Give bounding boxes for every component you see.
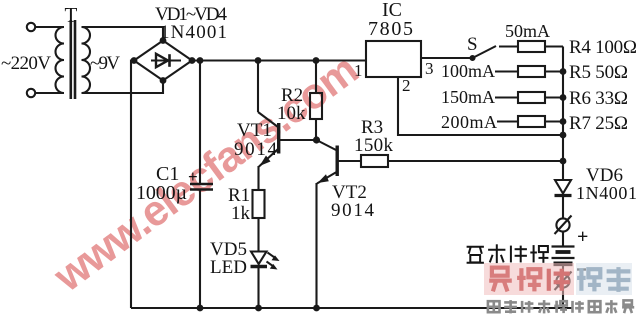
transistor VT1 <box>258 112 279 167</box>
logo char pei <box>577 268 601 291</box>
wire VT2 base to R3 <box>338 160 361 162</box>
logo subtitle char 6 <box>573 301 584 313</box>
diode VD6 <box>555 180 572 196</box>
wire VT1 collector column <box>257 61 259 113</box>
junction bottom rail C1 <box>197 305 204 312</box>
svg-text:+: + <box>577 226 588 248</box>
junction top rail VT1 <box>255 57 262 64</box>
svg-text:200mA: 200mA <box>441 112 497 132</box>
transformer T primary winding <box>56 27 65 93</box>
wire left ground rail <box>131 61 134 309</box>
logo char tuo <box>549 269 570 291</box>
wire C1 column lower <box>199 190 201 309</box>
junction bridge top vertex <box>160 37 167 44</box>
svg-text:+: + <box>188 167 198 186</box>
junction rail R3 line <box>560 158 567 165</box>
junction rail R6 <box>560 94 567 101</box>
svg-text:150mA: 150mA <box>441 87 495 107</box>
svg-text:R5 50Ω: R5 50Ω <box>569 62 628 83</box>
transformer T primary terminal lower <box>27 89 35 97</box>
logo char yi <box>489 268 512 292</box>
wire pin3 to switch <box>421 57 472 59</box>
svg-text:1N4001: 1N4001 <box>576 183 637 203</box>
svg-text:1N4001: 1N4001 <box>160 22 227 43</box>
logo char xun <box>607 267 631 292</box>
resistor R4 <box>499 41 563 52</box>
svg-text:VT1: VT1 <box>237 120 272 141</box>
svg-text:150k: 150k <box>354 135 394 156</box>
junction bottom rail VT2 <box>313 305 320 312</box>
svg-text:www.elecfans.com: www.elecfans.com <box>45 46 367 302</box>
svg-text:7805: 7805 <box>368 18 413 40</box>
switch S <box>471 46 497 60</box>
resistor R7 <box>497 116 563 127</box>
wire C1 column upper <box>199 61 201 184</box>
logo subtitle char 4 <box>538 300 550 313</box>
svg-text:1k: 1k <box>231 203 251 224</box>
wire VD6 to terminal <box>562 196 564 219</box>
wire primary lower lead <box>35 92 64 94</box>
junction rail pin2 <box>560 132 567 139</box>
wire primary upper lead <box>35 26 64 28</box>
svg-text:S: S <box>467 34 478 55</box>
logo subtitle char 5 <box>554 301 567 313</box>
svg-text:LED: LED <box>210 257 247 278</box>
terminal plug upper <box>555 216 572 235</box>
junction bridge right vertex <box>189 57 196 64</box>
logo subtitle char 9 <box>622 300 634 313</box>
resistor R5 <box>495 66 563 77</box>
wire VT1 emitter to R1 <box>257 166 259 190</box>
op-amp IC 7805 box <box>366 41 421 77</box>
svg-text:1: 1 <box>354 61 363 80</box>
logo backdrop <box>484 263 632 295</box>
transistor VT2 <box>317 140 338 184</box>
terminal plug lower <box>555 272 572 291</box>
svg-text:R7 25Ω: R7 25Ω <box>569 113 628 134</box>
transformer T core <box>71 20 75 99</box>
junction bottom rail VD5 <box>255 305 262 312</box>
logo subtitle char 8 <box>605 300 617 313</box>
resistor R6 <box>495 92 563 103</box>
label chong (charge) <box>488 244 505 263</box>
battery cells <box>552 247 575 264</box>
svg-text:~220V: ~220V <box>1 53 51 74</box>
bridge rectifier VD1~VD4 <box>134 41 192 81</box>
svg-text:1000µ: 1000µ <box>136 182 187 204</box>
svg-text:50mA: 50mA <box>505 21 550 41</box>
wire terminal to ground rail <box>562 288 564 308</box>
logo char di <box>517 268 541 291</box>
junction rail R5 <box>560 68 567 75</box>
svg-text:R4 100Ω: R4 100Ω <box>569 37 637 58</box>
wire R3 to VD6 column <box>388 160 563 162</box>
label bei (charged) <box>467 247 484 263</box>
svg-text:9014: 9014 <box>331 200 375 221</box>
watermark www.elecfans.com <box>45 46 367 302</box>
logo subtitle char 1 <box>488 301 500 312</box>
wire positive top rail <box>192 59 366 61</box>
wire secondary bottom to bridge <box>82 80 164 93</box>
svg-text:100mA: 100mA <box>441 61 495 81</box>
wire terminal to battery <box>562 232 564 246</box>
svg-text:2: 2 <box>402 76 411 95</box>
capacitor C1 <box>190 184 213 190</box>
svg-text:T: T <box>65 3 78 27</box>
wire VD5 to ground rail <box>257 267 259 309</box>
logo subtitle char 3 <box>522 301 533 313</box>
svg-text:10k: 10k <box>277 103 306 124</box>
label dian (electric) <box>511 246 527 263</box>
svg-text:3: 3 <box>425 59 434 78</box>
svg-text:R6 33Ω: R6 33Ω <box>569 88 628 109</box>
svg-text:9014: 9014 <box>234 139 278 160</box>
transformer T secondary winding <box>82 27 91 93</box>
resistor R1 <box>253 190 265 218</box>
LED VD5 <box>251 252 280 270</box>
junction bridge left vertex <box>131 57 138 64</box>
wire VT1 base <box>279 139 317 141</box>
wire pin2 down and right <box>398 77 563 135</box>
logo subtitle char 7 <box>589 301 601 312</box>
label battery minus <box>577 268 586 270</box>
wire R2 column upper <box>315 61 317 94</box>
wire battery to terminal lower <box>562 264 564 275</box>
label chi (pool/battery) <box>530 245 548 263</box>
wire secondary top to bridge <box>82 27 164 41</box>
wire R1 to VD5 <box>257 218 259 251</box>
svg-text:~9V: ~9V <box>90 53 120 74</box>
transformer T primary terminal upper <box>27 23 35 31</box>
logo subtitle char 2 <box>504 300 517 313</box>
wire right rail <box>562 47 564 181</box>
junction bridge bottom vertex <box>160 77 167 84</box>
resistor R3 <box>361 155 388 167</box>
resistor R2 <box>310 93 322 119</box>
junction rail R7 <box>560 118 567 125</box>
junction top rail R2 <box>313 57 320 64</box>
wire bottom ground rail <box>131 307 572 309</box>
wire VT2 emitter column <box>315 183 317 308</box>
junction top rail C1 <box>197 57 204 64</box>
wire R2 to node <box>315 119 317 140</box>
node VT1 base / R2 / VT2 collector <box>313 136 320 143</box>
